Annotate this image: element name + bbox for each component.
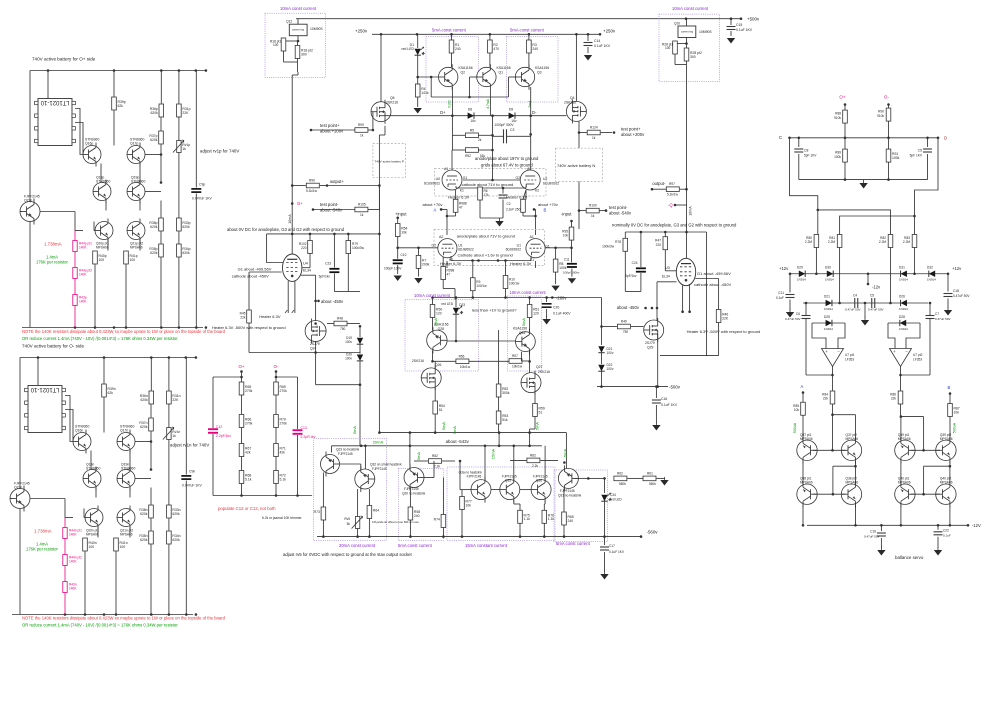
svg-text:100: 100	[89, 545, 95, 549]
diode D21s 1N914	[826, 300, 832, 306]
svg-text:240: 240	[532, 47, 538, 51]
svg-text:D31: D31	[899, 266, 905, 270]
svg-text:0.1uF: 0.1uF	[943, 534, 951, 538]
resistor R49 750	[617, 324, 630, 329]
svg-text:EL34: EL34	[662, 275, 670, 279]
svg-text:140K: 140K	[79, 300, 87, 304]
wire pt2 lower collector	[949, 466, 951, 484]
svg-text:2.2M: 2.2M	[828, 240, 835, 244]
svg-text:FJPF2145: FJPF2145	[560, 489, 575, 493]
svg-text:adjust rv5 for 0VDC with respe: adjust rv5 for 0VDC with respect to grou…	[283, 552, 413, 557]
transistor Q38 pt2 MPSA06	[841, 481, 861, 507]
svg-text:22K: 22K	[182, 111, 189, 115]
svg-text:C10: C10	[401, 253, 407, 257]
svg-text:300: 300	[301, 52, 307, 56]
ccs box 5mA c	[398, 469, 443, 541]
wire	[40, 211, 75, 213]
wire base pair bottom	[813, 493, 846, 495]
wire D line	[385, 115, 566, 117]
svg-text:1N914: 1N914	[899, 327, 908, 331]
svg-text:1N914: 1N914	[899, 278, 908, 282]
svg-text:D21: D21	[824, 295, 830, 299]
capacitor C14 0.1uF 1KV	[587, 34, 589, 41]
svg-text:740V active battery for O- sid: 740V active battery for O- side	[22, 344, 84, 349]
svg-text:22K: 22K	[172, 398, 179, 402]
svg-text:R52: R52	[465, 154, 471, 158]
svg-text:D6: D6	[468, 108, 472, 112]
svg-text:G1 about -499.56V: G1 about -499.56V	[697, 271, 731, 276]
svg-text:0.47uF 50V: 0.47uF 50V	[864, 535, 880, 539]
svg-text:10k: 10k	[954, 410, 960, 414]
svg-text:0.47uF 50V: 0.47uF 50V	[953, 294, 970, 298]
diode D29 1N914	[799, 271, 805, 277]
svg-text:1N914: 1N914	[825, 278, 834, 282]
svg-text:750: 750	[340, 327, 346, 331]
resistor R50 120	[432, 298, 434, 306]
ccs box 10mA R	[507, 296, 541, 371]
svg-text:D+: D+	[440, 110, 446, 115]
wire fb left	[832, 367, 834, 391]
svg-text:10M90S: 10M90S	[310, 27, 323, 31]
svg-text:42k: 42k	[280, 450, 286, 454]
svg-text:V160: V160	[448, 100, 452, 108]
wire	[97, 527, 99, 538]
wire cross1	[818, 210, 891, 235]
svg-text:+: +	[825, 349, 828, 354]
svg-text:less than +1V to ground?: less than +1V to ground?	[472, 308, 517, 313]
svg-text:240: 240	[568, 519, 574, 523]
wire -543v line A	[379, 432, 566, 434]
svg-text:22k: 22k	[240, 316, 246, 320]
transistor Q16n STN9360	[73, 430, 91, 454]
wire output+ to battery	[327, 185, 379, 187]
capacitor C3 1000pF 500V	[503, 129, 505, 143]
svg-text:U2: U2	[543, 177, 547, 181]
svg-text:R97: R97	[669, 182, 675, 186]
wire base links	[340, 463, 361, 465]
transistor Q28 KSA1156	[427, 327, 447, 353]
svg-text:+12v: +12v	[779, 266, 789, 271]
svg-text:5mA: 5mA	[535, 422, 540, 431]
svg-text:1N914: 1N914	[899, 307, 908, 311]
svg-text:-12V: -12V	[972, 523, 981, 528]
resistor R89 100k	[844, 138, 846, 149]
svg-text:OR reduce current 1.4mA (740V: OR reduce current 1.4mA (740V - 10V) /(0…	[22, 623, 178, 628]
svg-text:C9n: C9n	[189, 470, 195, 474]
wire base pair top	[911, 449, 940, 451]
ground	[664, 477, 666, 480]
svg-text:620k: 620k	[150, 225, 158, 229]
IC Up LT1021-10	[38, 99, 72, 146]
wire	[575, 34, 577, 101]
resistor R6 17k	[478, 187, 483, 200]
svg-text:C13: C13	[301, 426, 307, 430]
svg-text:nominally 0V DC for anodeplate: nominally 0V DC for anodeplate, G3 and G…	[612, 222, 737, 227]
svg-text:Rv5: Rv5	[344, 517, 350, 521]
svg-text:5mA: 5mA	[521, 318, 526, 327]
wire D down	[915, 138, 939, 235]
transistor Q19p STN9360	[127, 180, 145, 204]
wire U3 cathode left	[657, 281, 677, 283]
wire	[19, 358, 21, 489]
wire heater rail	[249, 352, 360, 354]
svg-text:2SJ79: 2SJ79	[310, 342, 320, 346]
svg-text:Heater 6.3V: Heater 6.3V	[259, 314, 281, 319]
svg-text:2.2pF/1kv: 2.2pF/1kv	[301, 435, 316, 439]
svg-text:2.2k: 2.2k	[532, 464, 538, 468]
svg-text:120: 120	[533, 311, 539, 315]
svg-text:620k: 620k	[182, 251, 190, 255]
svg-text:5mA: 5mA	[562, 449, 567, 458]
resistor R72 5.1k	[274, 471, 279, 484]
resistor R54 10k	[395, 224, 400, 237]
svg-text:C20: C20	[553, 306, 559, 310]
transistor Q20n MPSA06	[85, 506, 103, 530]
tube gray box row2	[434, 230, 545, 266]
svg-text:R99: R99	[358, 123, 364, 127]
resistor R36p 620k	[160, 71, 162, 104]
svg-text:red LED: red LED	[402, 47, 415, 51]
svg-text:red LED: red LED	[610, 498, 622, 502]
wire emitters to rail	[900, 505, 902, 526]
svg-text:22k: 22k	[891, 397, 897, 401]
svg-text:O+: O+	[297, 201, 303, 206]
svg-text:O+: O+	[239, 364, 245, 369]
svg-text:100: 100	[99, 258, 105, 262]
wire	[601, 298, 603, 327]
svg-text:LT1021-10: LT1021-10	[40, 99, 69, 105]
wire plate feeds	[451, 87, 453, 116]
svg-text:Q35: Q35	[505, 479, 511, 483]
svg-text:0.1uF 1KV: 0.1uF 1KV	[736, 28, 753, 32]
svg-text:MPSA06: MPSA06	[130, 246, 143, 250]
wire	[145, 154, 161, 156]
svg-text:Q2: Q2	[461, 71, 466, 75]
svg-text:NOTE the 140K resistors dissip: NOTE the 140K resistors dissipate about …	[22, 616, 226, 621]
svg-text:10mA const current: 10mA const current	[510, 290, 547, 295]
LED D24 red	[604, 478, 606, 493]
resistor R82a 2.2k	[429, 459, 442, 464]
ccs box 1 10mA const current	[265, 13, 326, 77]
resistor R102 220	[309, 234, 311, 241]
ccs box 5mA d	[554, 470, 608, 542]
svg-text:910k: 910k	[877, 114, 884, 118]
transistor Q18n STN9360	[83, 467, 101, 491]
resistor R70 270k	[274, 415, 279, 428]
wire G1 row right	[545, 247, 571, 249]
resistor R53 51k	[496, 411, 501, 424]
IC Un LT1021-10	[28, 386, 62, 433]
resistor R35p 620k	[160, 232, 162, 244]
svg-text:5mA: 5mA	[441, 422, 446, 431]
resistor R90 910k	[888, 105, 890, 109]
wire	[135, 478, 151, 480]
svg-text:1.738mA: 1.738mA	[34, 529, 52, 534]
wire top rail	[30, 70, 205, 72]
resistor R97 5.1k/1w	[666, 187, 679, 192]
transistor Q2 KSA1156	[439, 64, 458, 89]
wire grid frame	[267, 234, 283, 263]
wire shared base	[447, 340, 515, 342]
wire ccs feed jog	[831, 413, 834, 416]
svg-text:Heater 6.3V -500V with respect: Heater 6.3V -500V with respect to ground	[687, 329, 761, 334]
svg-text:R61: R61	[647, 471, 653, 475]
transistor Q21p MPSA06	[127, 219, 145, 243]
resistor R71 42k	[274, 444, 279, 457]
wire ccs row wiring	[331, 446, 333, 453]
resistor R95 10k	[569, 227, 574, 240]
svg-text:5.1k/1w: 5.1k/1w	[667, 193, 679, 197]
svg-text:populate C12 or C13, not both: populate C12 or C13, not both	[218, 506, 276, 511]
svg-text:+250v: +250v	[355, 29, 368, 34]
svg-text:MPSA06: MPSA06	[940, 437, 953, 441]
resistor R68 5.1k	[239, 471, 244, 484]
svg-text:C11: C11	[564, 258, 570, 262]
opamp U7 pt2 LF353	[890, 349, 912, 367]
resistor R33n 620k	[167, 505, 172, 518]
ccs box 15mA	[447, 467, 555, 541]
capacitor C17 0.1uF 1KV	[604, 537, 606, 545]
svg-text:62k: 62k	[118, 104, 124, 108]
svg-text:K1: K1	[460, 189, 464, 193]
wire	[520, 352, 522, 361]
svg-text:Q16n: Q16n	[75, 429, 83, 433]
svg-text:5k: 5k	[347, 522, 351, 526]
mosfet Q6 2SK216	[371, 100, 391, 124]
svg-text:100v: 100v	[345, 357, 352, 361]
svg-text:+input: +input	[395, 212, 407, 217]
transistor Q34 FJPF2145	[471, 477, 491, 503]
wire ccs2 down	[686, 95, 688, 189]
svg-text:current reg: current reg	[681, 30, 694, 33]
svg-text:R124: R124	[590, 126, 598, 130]
opamp U7 pt1 LF353	[822, 349, 844, 367]
svg-text:MPSA06: MPSA06	[120, 533, 133, 537]
svg-text:U4: U4	[303, 262, 308, 266]
wire k rail row2	[473, 260, 506, 262]
wire	[276, 376, 298, 378]
wire fb right	[900, 367, 902, 391]
wire	[479, 200, 481, 218]
resistor R44n pt2 140K magenta	[64, 539, 66, 555]
svg-text:1N914: 1N914	[824, 307, 833, 311]
svg-text:5pF/1kv: 5pF/1kv	[319, 275, 331, 279]
svg-text:output-: output-	[652, 181, 666, 186]
trimmer Rv1p 1k	[178, 117, 180, 141]
transistor Q1 KSA1156	[477, 64, 496, 89]
svg-text:10k: 10k	[794, 408, 800, 412]
svg-text:100k/3w: 100k/3w	[352, 246, 365, 250]
resistor R80 2.2M	[814, 235, 819, 248]
svg-text:1N914: 1N914	[824, 327, 833, 331]
svg-text:51: 51	[539, 410, 543, 414]
svg-text:−: −	[837, 349, 840, 354]
wire Q29 down	[657, 334, 659, 387]
svg-text:1k: 1k	[360, 213, 364, 217]
wire servo gnd rail	[799, 179, 928, 181]
resistor R78 100k/3w	[624, 232, 626, 238]
svg-text:C5: C5	[918, 149, 922, 153]
svg-text:270k: 270k	[245, 389, 253, 393]
svg-text:C18: C18	[953, 289, 959, 293]
svg-text:100: 100	[130, 258, 136, 262]
wire pt2 emitter hook	[855, 461, 857, 466]
tube T2 6922	[520, 170, 540, 190]
svg-text:R49: R49	[621, 320, 627, 324]
svg-text:C34: C34	[610, 493, 616, 497]
wire U4 cathode right	[301, 274, 316, 276]
transistor Q3 KSA1156	[515, 64, 534, 89]
resistor R39p 62k	[113, 71, 115, 97]
wire	[578, 181, 580, 229]
zener D19 100v	[359, 326, 361, 337]
resistor R77 10k	[461, 490, 463, 497]
svg-text:120: 120	[436, 311, 442, 315]
svg-text:2SK216: 2SK216	[412, 359, 424, 363]
svg-text:100: 100	[120, 545, 126, 549]
svg-text:C3: C3	[510, 128, 514, 132]
wire	[95, 488, 97, 498]
svg-text:U7 pt1: U7 pt1	[845, 353, 855, 357]
tube gray box row1	[435, 169, 547, 197]
svg-text:R96: R96	[309, 179, 315, 183]
svg-text:Q28: Q28	[438, 327, 445, 331]
svg-text:A1: A1	[530, 235, 534, 239]
resistor R31n 22K	[168, 358, 170, 391]
svg-text:R100: R100	[589, 204, 597, 208]
svg-text:2.2M: 2.2M	[879, 240, 886, 244]
svg-text:1000pF 500V: 1000pF 500V	[494, 123, 514, 127]
svg-text:cathode about -450V: cathode about -450V	[694, 282, 731, 287]
svg-text:5.1k: 5.1k	[245, 477, 252, 481]
svg-text:D29: D29	[797, 266, 803, 270]
svg-text:Q23 no heatsink: Q23 no heatsink	[336, 448, 360, 452]
LED D1 red	[417, 34, 419, 48]
svg-text:10k/1w: 10k/1w	[512, 365, 523, 369]
resistor R52b 300k	[498, 330, 500, 384]
wire	[107, 240, 109, 251]
resistor R5 2k	[465, 133, 478, 138]
resistor R105 1k	[355, 207, 368, 212]
svg-text:20mA const current: 20mA const current	[339, 543, 376, 548]
wire	[275, 372, 277, 383]
svg-text:5mA const current: 5mA const current	[510, 28, 545, 33]
resistor R85 10k	[802, 393, 804, 403]
svg-text:1k: 1k	[360, 134, 364, 138]
wire	[29, 71, 31, 202]
mosfet Q4 2SK216	[566, 99, 586, 123]
svg-text:0.47uF 50V: 0.47uF 50V	[845, 308, 861, 312]
ccs box 10mA L	[405, 300, 479, 372]
wire	[10, 498, 12, 500]
svg-text:0.1uF: 0.1uF	[776, 296, 784, 300]
svg-text:51k: 51k	[502, 418, 508, 422]
wire k rail	[455, 186, 457, 188]
diode D30 1N914	[827, 271, 833, 277]
resistor R75 1.1k	[513, 500, 515, 504]
svg-text:6CU8/6922: 6CU8/6922	[543, 182, 559, 186]
transistor Q39 pt1 MPSA06	[895, 437, 915, 463]
zener D21 100v	[601, 327, 603, 346]
svg-text:D32: D32	[927, 266, 933, 270]
resistor R91 100k	[888, 138, 890, 149]
svg-text:C16: C16	[870, 530, 876, 534]
svg-text:10k: 10k	[401, 230, 407, 234]
svg-text:0.047uF 1KV: 0.047uF 1KV	[182, 484, 203, 488]
svg-text:1k: 1k	[592, 136, 596, 140]
mosfet Q27 2SK216	[521, 371, 541, 395]
svg-text:MPSA06: MPSA06	[898, 437, 911, 441]
svg-text:R57: R57	[512, 354, 518, 358]
wire	[241, 372, 243, 383]
svg-text:6DJ8/6922: 6DJ8/6922	[506, 248, 522, 252]
diode D32 1N914	[929, 271, 935, 277]
battery P box	[373, 144, 406, 178]
svg-text:B: B	[948, 385, 951, 390]
svg-text:5pF/1kv: 5pF/1kv	[625, 274, 637, 278]
resistor R61 560k	[643, 476, 656, 481]
svg-text:Q20 no heatsink: Q20 no heatsink	[402, 492, 426, 496]
transistor Q36 FJPF2145	[531, 477, 551, 503]
ground	[863, 180, 865, 183]
svg-text:G2: G2	[431, 244, 436, 248]
wire Q24 jog	[315, 353, 317, 385]
svg-text:200k: 200k	[422, 262, 430, 266]
capacitor C12 2.2pF/1kv magenta	[212, 377, 214, 428]
resistor R59 51	[534, 393, 536, 404]
svg-text:270k: 270k	[280, 421, 288, 425]
svg-text:FJPF2145: FJPF2145	[467, 475, 482, 479]
svg-text:R48: R48	[337, 317, 343, 321]
svg-text:about +200v: about +200v	[621, 132, 645, 137]
svg-text:OR reduce current 1.4mA (740V: OR reduce current 1.4mA (740V - 10V) /(0…	[22, 336, 178, 341]
svg-text:1k: 1k	[591, 214, 595, 218]
regulator Q10 10M90S	[678, 26, 696, 38]
svg-text:Q32 on small heatsink: Q32 on small heatsink	[370, 463, 402, 467]
capacitor C7 0.47uF 50V	[926, 315, 935, 317]
svg-text:adjust rv1p for 740V: adjust rv1p for 740V	[200, 149, 239, 154]
resistor R2 470	[489, 34, 491, 40]
wire	[380, 34, 382, 101]
svg-text:1N914: 1N914	[927, 278, 936, 282]
zener D22 100v	[601, 353, 603, 364]
resistor R66 270k	[239, 415, 244, 428]
svg-text:C9p: C9p	[199, 183, 205, 187]
svg-text:STN9360: STN9360	[121, 467, 135, 471]
capacitor C16 0.1uF 1KV	[655, 387, 657, 398]
transistor Q39 pt2 MPSA06	[936, 437, 956, 463]
transistor Q37 pt1 MPSA06	[797, 437, 817, 463]
resistor R34p 620k	[178, 232, 180, 244]
resistor R57 10k/1w	[509, 359, 522, 364]
diode D6	[468, 113, 474, 119]
svg-text:Q31 no heatsink: Q31 no heatsink	[558, 494, 582, 498]
wire left column	[802, 461, 804, 484]
svg-text:O+: O+	[839, 94, 845, 99]
capacitor C19 0.47uF 50V	[880, 525, 882, 531]
capacitor C4 0.47uF 50V	[854, 298, 856, 308]
svg-text:LT1021-10: LT1021-10	[30, 386, 59, 392]
svg-text:Q4: Q4	[570, 96, 575, 100]
svg-text:C2: C2	[507, 202, 511, 206]
wire ic to base	[75, 109, 83, 155]
svg-text:1.1k: 1.1k	[548, 517, 555, 521]
resistor R74 2k	[442, 478, 444, 515]
resistor R84 22k	[830, 391, 835, 404]
capacitor C24 5pF/1kv	[640, 232, 642, 267]
transistor Q40 pt2 MPSA06	[936, 481, 956, 507]
wire	[105, 201, 107, 211]
